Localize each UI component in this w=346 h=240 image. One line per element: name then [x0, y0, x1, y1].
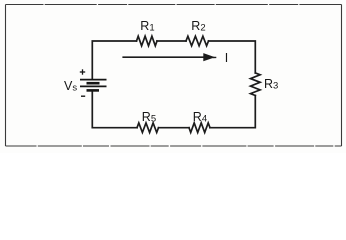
- wire bottom-left corner up to battery: [92, 90, 137, 127]
- battery minus sign: [81, 95, 85, 97]
- resistor R4: [189, 123, 210, 133]
- wire R3 down to bottom-right corner: [210, 96, 255, 128]
- svg-text:R4: R4: [193, 110, 207, 125]
- battery VB plates: [80, 80, 107, 91]
- resistor R3: [251, 73, 261, 96]
- current arrow: [122, 54, 216, 60]
- wire between R4 and R5: [159, 127, 190, 129]
- wire top-right corner down to R3: [209, 41, 256, 73]
- svg-text:I: I: [225, 51, 228, 65]
- resistor R1: [137, 36, 158, 46]
- resistor R5: [137, 123, 159, 133]
- wire top-left segment: [92, 41, 136, 80]
- svg-text:R5: R5: [142, 110, 156, 125]
- battery plus sign: [80, 69, 85, 74]
- border frame: [6, 5, 342, 147]
- svg-text:R1: R1: [140, 19, 154, 34]
- resistor R2: [186, 36, 209, 46]
- svg-text:R2: R2: [191, 19, 205, 34]
- wire between R1 and R2: [157, 40, 186, 42]
- svg-text:Vs: Vs: [64, 79, 77, 94]
- svg-text:R3: R3: [264, 77, 278, 92]
